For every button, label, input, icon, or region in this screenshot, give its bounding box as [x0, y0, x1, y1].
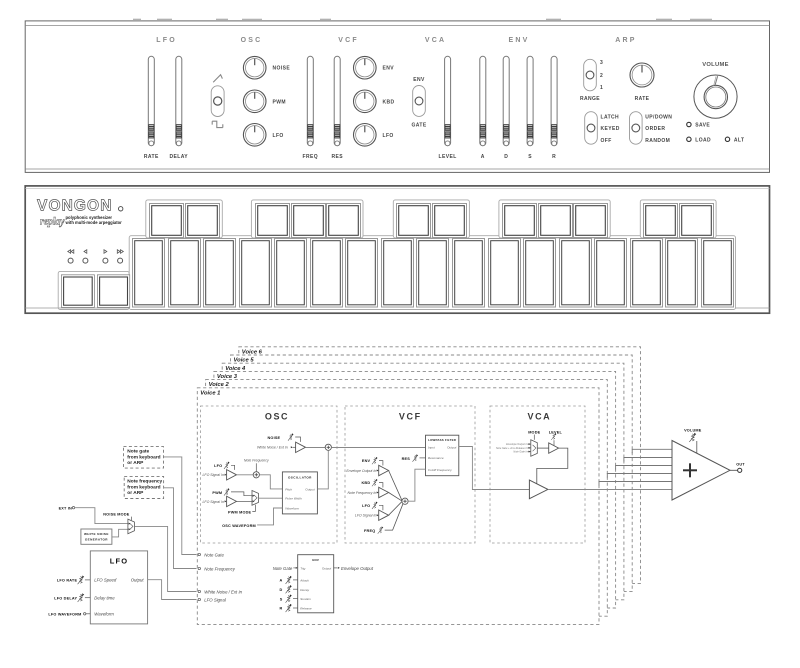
svg-text:S: S [280, 597, 283, 601]
svg-text:KEYED: KEYED [601, 126, 620, 132]
wire lfo out to voice1 [148, 580, 197, 600]
wire voice 5 output [624, 458, 672, 462]
svg-text:VONGON: VONGON [37, 198, 113, 215]
svg-text:ENV: ENV [509, 37, 530, 44]
svg-text:Voice 6: Voice 6 [242, 349, 263, 355]
slider A [480, 56, 486, 145]
wire voice 4 output [616, 466, 672, 470]
wire note gate + 2ms release in [528, 447, 531, 449]
wire lfo to sum [389, 501, 403, 515]
wire lfo pot to amp [379, 505, 383, 510]
wire noise pot to amp [295, 437, 300, 442]
wire note gate trig [293, 567, 295, 569]
wire voice 6 output [632, 449, 672, 453]
wire level to vca [537, 448, 568, 484]
svg-text:GENERATOR: GENERATOR [85, 538, 108, 542]
slider RES [334, 56, 340, 145]
wire note freq stub [255, 463, 257, 471]
wire noise to voice1 [134, 526, 196, 591]
amplifier VCF ENV [379, 465, 389, 475]
svg-text:Note Gate + 2ms Release In: Note Gate + 2ms Release In [496, 447, 528, 450]
black key C#2 [397, 204, 431, 238]
keyboard bezel: octave keys [58, 271, 129, 309]
svg-text:KBD: KBD [361, 481, 370, 485]
svg-text:MODE: MODE [528, 430, 540, 434]
transport button rew [68, 258, 73, 263]
keyboard panel faceplate [25, 186, 769, 313]
svg-text:Note Gate In: Note Gate In [513, 451, 528, 454]
black key C#1 [150, 204, 184, 238]
svg-text:OFF: OFF [601, 138, 612, 144]
svg-text:LFO: LFO [214, 464, 222, 468]
VCA block box [490, 406, 585, 543]
svg-text:Note frequency: Note frequency [127, 479, 162, 485]
svg-text:LFO Signal: LFO Signal [204, 597, 227, 602]
svg-text:R: R [280, 607, 283, 611]
wire lfo amp to sum [237, 474, 254, 476]
svg-text:A: A [280, 579, 283, 583]
amplifier LEVEL [549, 443, 559, 453]
white key 14 [595, 239, 627, 308]
amplifier OSC LFO [227, 470, 237, 480]
svg-text:Note Gate: Note Gate [273, 566, 293, 571]
svg-text:VCF: VCF [338, 37, 359, 44]
black key D#2 [433, 204, 467, 238]
potentiometer VCF LFO [372, 502, 378, 509]
svg-text:Note Frequency: Note Frequency [204, 566, 235, 571]
potentiometer VOLUME [689, 433, 696, 442]
oscillator box [282, 472, 317, 514]
svg-text:Input: Input [428, 445, 435, 449]
wire pwm mux to osc [259, 497, 283, 499]
svg-text:NOISE: NOISE [273, 66, 291, 72]
wire pwm amp to mux [237, 500, 253, 502]
lowpass filter box [426, 435, 459, 476]
node entry LFO Signal [198, 598, 200, 600]
wire envelope output in [528, 443, 531, 445]
summing node cutoff sum [402, 498, 408, 504]
amplifier VCF LFO [379, 510, 389, 520]
svg-text:GATE: GATE [411, 123, 426, 129]
wire lfo waveform to box [86, 613, 90, 615]
black key G#2 [539, 204, 573, 238]
keyboard bezel: white keys row [129, 236, 735, 310]
svg-text:White Noise / Ext In: White Noise / Ext In [204, 589, 242, 594]
knob OSC NOISE [243, 56, 266, 79]
white key 9 [417, 239, 449, 308]
wire note gate to voice1 [164, 457, 197, 555]
knob OSC PWM [243, 90, 266, 113]
potentiometer ENV D [286, 585, 292, 593]
button SAVE [687, 122, 691, 126]
amplifier VCA [529, 480, 548, 499]
ENV box [298, 555, 334, 613]
potentiometer LFO DELAY [78, 593, 85, 602]
wire sum to cutoff [408, 469, 425, 501]
white key 12 [524, 239, 556, 308]
black key A#2 [574, 204, 608, 238]
svg-text:OSCILLATOR: OSCILLATOR [288, 475, 312, 479]
svg-text:ORDER: ORDER [645, 126, 665, 132]
wire voice 2 output [599, 482, 672, 486]
transport button fwd [103, 258, 108, 263]
white key 3 [204, 239, 236, 308]
wire mode stub [533, 435, 535, 440]
svg-text:OSC: OSC [265, 412, 289, 422]
svg-text:Voice 1: Voice 1 [200, 390, 220, 396]
wire wng to mux [112, 529, 128, 537]
potentiometer PWM pot [224, 488, 230, 495]
white key 11 [489, 239, 521, 308]
svg-text:Output: Output [131, 578, 145, 583]
potentiometer RES [412, 454, 418, 461]
black key C#3 [644, 204, 678, 238]
svg-text:ENV: ENV [312, 558, 319, 562]
black key D#1 [186, 204, 220, 238]
svg-text:or ARP: or ARP [127, 460, 144, 466]
svg-text:LFO Signal In: LFO Signal In [355, 514, 376, 518]
multiplexer PWM MODE [252, 491, 259, 506]
svg-text:LFO: LFO [383, 133, 394, 139]
knob OSC LFO [243, 124, 266, 147]
wire ext in to mux [75, 508, 128, 524]
knob VCF KBD [354, 90, 377, 113]
voice box 1 [197, 388, 599, 625]
svg-text:SAVE: SAVE [695, 123, 710, 129]
wire note freq to voice1 [164, 488, 197, 569]
white key 15 [631, 239, 663, 308]
svg-text:PWM: PWM [273, 99, 286, 105]
potentiometer LEVEL [551, 433, 556, 440]
white key 17 [702, 239, 734, 308]
octave key 1 [61, 275, 94, 308]
white key 2 [169, 239, 201, 308]
svg-text:D: D [280, 588, 283, 592]
svg-text:3: 3 [600, 60, 603, 66]
svg-text:LFO WAVEFORM: LFO WAVEFORM [48, 613, 81, 617]
svg-text:LOAD: LOAD [695, 137, 711, 143]
svg-text:2: 2 [600, 73, 603, 79]
svg-text:NOISE: NOISE [267, 436, 280, 440]
wire voice 3 output [607, 474, 672, 478]
svg-text:LFO Signal In: LFO Signal In [202, 473, 223, 477]
wire lfo delay to box [85, 597, 90, 599]
svg-text:A: A [481, 154, 485, 160]
wire freq to sum [385, 504, 403, 530]
svg-text:Envelope Output: Envelope Output [341, 566, 374, 571]
OSC waveform switch with triangle and square glyphs [211, 75, 224, 128]
svg-text:LFO RATE: LFO RATE [57, 579, 78, 583]
svg-text:D: D [504, 154, 508, 160]
wire pwm pot to mux [231, 492, 252, 496]
svg-text:UP/DOWN: UP/DOWN [645, 114, 672, 120]
svg-text:Cutoff Frequency: Cutoff Frequency [428, 468, 452, 472]
potentiometer ENV S [286, 594, 292, 602]
svg-text:Trig: Trig [300, 567, 305, 571]
white noise generator box [81, 529, 112, 544]
svg-text:Pulse Width: Pulse Width [285, 497, 302, 501]
svg-text:S: S [528, 154, 532, 160]
svg-text:Note Frequency: Note Frequency [244, 459, 269, 463]
svg-text:Waveform: Waveform [94, 612, 114, 617]
svg-text:LFO: LFO [273, 133, 284, 139]
svg-text:Pitch: Pitch [285, 487, 292, 491]
svg-text:VOLUME: VOLUME [702, 62, 729, 68]
keyboard bezel: black key group 4 [499, 200, 610, 238]
wire noise amp to sum [306, 447, 326, 449]
svg-text:EXT IN: EXT IN [59, 506, 72, 510]
white key 8 [382, 239, 414, 308]
transport button back [83, 258, 88, 263]
svg-text:LOWPASS FILTER: LOWPASS FILTER [428, 438, 457, 442]
slider RATE [148, 56, 154, 145]
wire env out [334, 567, 338, 569]
svg-text:Waveform: Waveform [285, 506, 299, 510]
svg-text:LATCH: LATCH [601, 114, 620, 120]
wire noise in [293, 446, 296, 448]
button LOAD [687, 137, 691, 141]
wire res to lpf [420, 457, 426, 459]
wire lfo pot to amp [231, 465, 235, 470]
slider R [551, 56, 557, 145]
summing node OSC mixer [325, 444, 331, 450]
svg-text:KBD: KBD [383, 99, 395, 105]
transport symbols [68, 250, 124, 254]
switch ARP RANGE [584, 59, 597, 91]
svg-text:LFO Signal In: LFO Signal In [202, 500, 223, 504]
svg-text:ARP: ARP [615, 37, 636, 44]
black key A#1 [327, 204, 361, 238]
svg-text:RANDOM: RANDOM [645, 138, 670, 144]
keyboard bezel: black key group 5 [640, 200, 716, 238]
svg-text:1: 1 [600, 85, 603, 91]
potentiometer FREQ [378, 526, 384, 533]
svg-text:Envelope Output In: Envelope Output In [506, 443, 528, 446]
svg-text:Voice 2: Voice 2 [209, 382, 230, 388]
node entry Note Frequency [198, 567, 200, 569]
wire decay wire [293, 588, 298, 590]
black key G#1 [292, 204, 326, 238]
svg-text:RES: RES [331, 154, 343, 160]
svg-text:LEVEL: LEVEL [439, 154, 457, 160]
svg-text:R: R [552, 154, 556, 160]
svg-text:Note Frequency In: Note Frequency In [348, 491, 377, 495]
svg-text:PWM MODE: PWM MODE [228, 510, 252, 514]
voice box 5 [231, 355, 633, 592]
svg-text:Note gate: Note gate [127, 449, 149, 455]
knob VCF ENV [354, 56, 377, 79]
potentiometer LFO RATE [78, 576, 85, 585]
svg-text:Output: Output [305, 487, 314, 491]
summing amplifier [672, 441, 730, 501]
switch ARP LATCH/KEYED/OFF [585, 112, 598, 145]
multiplexer NOISE MODE [128, 519, 134, 534]
white key 16 [666, 239, 698, 308]
svg-text:NOISE MODE: NOISE MODE [103, 513, 130, 517]
node entry White Noise / Ext In [198, 590, 200, 592]
svg-text:ENV: ENV [383, 66, 395, 72]
potentiometer OSC NOISE [288, 433, 294, 440]
amplifier VCF KBD [379, 487, 389, 497]
svg-text:LFO: LFO [362, 504, 370, 508]
voice box 2 [206, 380, 608, 617]
svg-text:or ARP: or ARP [127, 490, 144, 496]
svg-text:RATE: RATE [144, 154, 159, 160]
wire noise mode stub [130, 517, 132, 521]
knob VOLUME [694, 75, 737, 118]
wire pwm mode stub [252, 505, 255, 512]
svg-text:VCA: VCA [425, 37, 446, 44]
node OUT [738, 468, 742, 472]
svg-text:FREQ: FREQ [364, 529, 375, 533]
svg-text:Resonance: Resonance [428, 456, 444, 460]
svg-text:from keyboard: from keyboard [127, 454, 160, 460]
svg-text:LFO: LFO [110, 557, 129, 566]
voice box 4 [222, 363, 624, 600]
transport button ffwd [118, 258, 123, 263]
node entry Note Gate [198, 553, 200, 555]
svg-text:Decay: Decay [300, 588, 309, 592]
white key 6 [311, 239, 343, 308]
LFO box [90, 551, 147, 624]
wire voice1 out [548, 489, 672, 491]
svg-text:VCF: VCF [399, 412, 422, 422]
svg-text:ENV: ENV [413, 77, 425, 83]
svg-text:FREQ: FREQ [303, 154, 319, 160]
knob VCF LFO [354, 124, 377, 147]
keyboard bezel: black key group 3 [393, 200, 469, 238]
svg-text:replay: replay [40, 216, 65, 227]
svg-text:DELAY: DELAY [170, 154, 189, 160]
wire env to sum [389, 471, 403, 502]
white key 1 [133, 239, 165, 308]
svg-text:Envelope Output In: Envelope Output In [346, 469, 376, 473]
keyboard bezel: black key group 1 [146, 200, 223, 238]
black key F#2 [503, 204, 537, 238]
svg-text:OSC WAVEFORM: OSC WAVEFORM [222, 524, 256, 528]
node: note frequency source box [124, 476, 163, 498]
svg-text:LFO: LFO [156, 37, 177, 44]
switch VCA ENV/GATE [413, 86, 426, 117]
svg-text:RATE: RATE [635, 96, 650, 102]
slider D [503, 56, 509, 145]
svg-text:Delay time: Delay time [94, 596, 115, 601]
summing node pitch sum [253, 472, 259, 478]
svg-text:with multi-mode arpeggiator: with multi-mode arpeggiator [65, 220, 123, 225]
potentiometer OSC LFO pot [224, 462, 230, 469]
wire kbd to sum [389, 493, 403, 502]
svg-text:ENV: ENV [362, 459, 371, 463]
wire pitch to osc [259, 475, 282, 489]
potentiometer ENV A [286, 576, 292, 584]
button ALT [725, 137, 729, 141]
top panel faceplate [25, 21, 769, 173]
slider LEVEL [445, 56, 451, 145]
switch ARP UP/DOWN-ORDER-RANDOM [630, 112, 643, 145]
svg-text:Output: Output [322, 567, 331, 571]
svg-text:WHITE NOISE: WHITE NOISE [84, 532, 109, 536]
svg-text:PWM: PWM [212, 491, 222, 495]
wire volume to amp [696, 441, 698, 453]
svg-text:Voice 5: Voice 5 [234, 358, 255, 364]
keyboard bezel: black key group 2 [251, 200, 363, 238]
black key F#1 [256, 204, 290, 238]
wire mux to level [537, 447, 548, 449]
white key 13 [560, 239, 592, 308]
voice box 3 [214, 371, 616, 608]
potentiometer VCF ENV [372, 457, 378, 464]
svg-text:Voice 4: Voice 4 [225, 366, 246, 372]
wire osc to lpf [331, 447, 425, 449]
svg-text:OUT: OUT [736, 462, 745, 466]
svg-text:Voice 3: Voice 3 [217, 374, 238, 380]
svg-text:Output: Output [447, 445, 456, 449]
wire osc out to sum [317, 450, 328, 489]
wire amp to out [730, 469, 737, 471]
OSC block box [201, 406, 338, 543]
wire release wire [293, 607, 298, 609]
logo dot [119, 207, 123, 211]
wire osc waveform [257, 508, 282, 525]
knob ARP RATE [630, 63, 654, 87]
white key 7 [346, 239, 378, 308]
svg-text:RES: RES [402, 457, 411, 461]
svg-text:Attack: Attack [299, 579, 309, 583]
black key D#3 [680, 204, 714, 238]
svg-text:from keyboard: from keyboard [127, 484, 160, 490]
potentiometer ENV R [286, 604, 292, 612]
faint cropped spec text above panel [133, 18, 712, 20]
voice box 6 [239, 347, 641, 584]
white key 4 [240, 239, 272, 308]
wire kbd pot to amp [379, 483, 383, 488]
octave key 2 [97, 275, 129, 308]
wire env pot to amp [379, 461, 383, 466]
svg-text:ALT: ALT [734, 137, 745, 143]
svg-text:White Noise / Ext In: White Noise / Ext In [257, 446, 288, 450]
svg-text:Sustain: Sustain [300, 597, 311, 601]
svg-text:RANGE: RANGE [580, 96, 600, 102]
svg-text:LFO DELAY: LFO DELAY [54, 597, 77, 601]
white key 5 [275, 239, 307, 308]
wire level pot to amp [553, 440, 555, 445]
slider FREQ [307, 56, 313, 145]
svg-text:VCA: VCA [527, 412, 551, 422]
slider DELAY [176, 56, 182, 145]
wire sustain wire [293, 598, 298, 600]
amplifier PWM LFO [227, 496, 237, 506]
svg-text:Note Gate: Note Gate [204, 552, 224, 557]
wire lfo rate to box [85, 579, 90, 581]
potentiometer VCF KBD [372, 479, 378, 486]
multiplexer VCA MODE [531, 440, 538, 457]
svg-text:VOLUME: VOLUME [684, 428, 702, 432]
svg-text:LFO Speed: LFO Speed [94, 578, 117, 583]
node: note gate source box [124, 447, 164, 469]
wire attack wire [293, 579, 298, 581]
svg-text:OSC: OSC [241, 37, 263, 44]
svg-text:Release: Release [300, 607, 312, 611]
slider S [527, 56, 533, 145]
VCF block box [345, 406, 475, 543]
wire note gate in [528, 451, 531, 453]
amplifier NOISE [296, 442, 306, 452]
wire lpf out to vca [459, 447, 530, 490]
white key 10 [453, 239, 485, 308]
